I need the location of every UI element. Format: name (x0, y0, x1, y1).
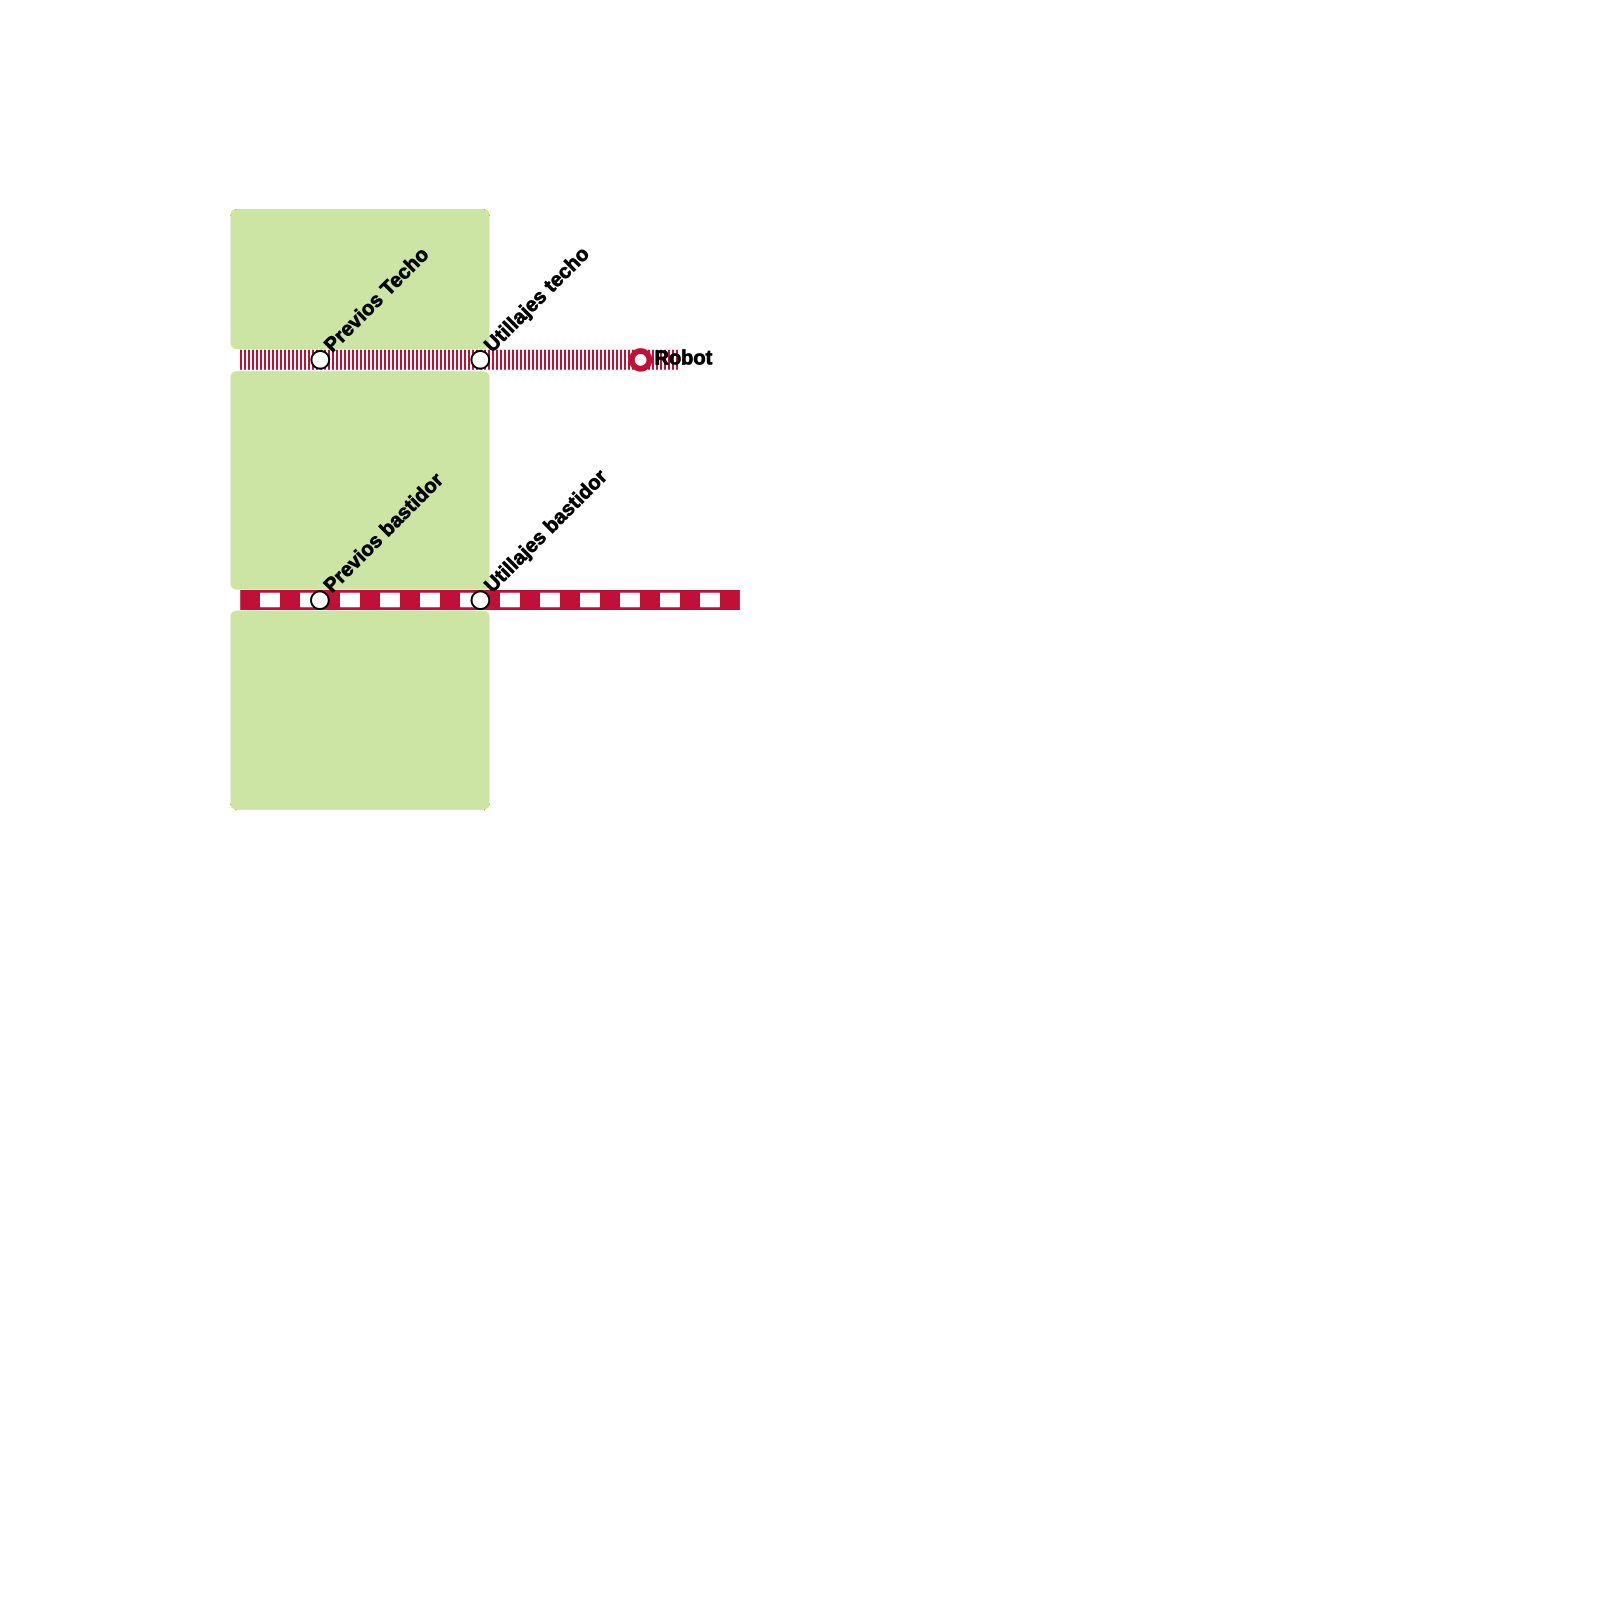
brown corner speck rect1 TR a (484, 209, 485, 210)
line techo (striped red line) (240, 350, 680, 370)
line bastidor (red base) (240, 590, 740, 610)
brown corner speck rect3 BL a (230, 804, 231, 805)
yellow corner dot rect3 TL (232, 612, 234, 614)
terminus ring Robot (632, 351, 650, 369)
yellow corner dot rect1 BL (232, 346, 234, 348)
yellow corner dot rect3 TR (487, 612, 489, 614)
yellow corner dot rect3 BL (232, 806, 234, 808)
line bastidor white dashes (260, 593, 740, 608)
yellow corner dot rect1 TL (232, 211, 234, 213)
yellow corner dot rect2 TR (487, 373, 489, 375)
brown corner speck rect1 TL b (235, 209, 236, 210)
brown corner speck rect3 BR a (484, 809, 485, 810)
station Previos bastidor (311, 591, 329, 609)
zone block 2 (middle area) (231, 371, 490, 589)
yellow corner dot rect2 BR (487, 586, 489, 588)
brown corner speck rect1 TL a (230, 215, 231, 216)
station Utillajes bastidor (472, 591, 490, 609)
station Previos Techo (311, 351, 329, 369)
yellow corner dot rect2 BL (232, 586, 234, 588)
yellow corner dot rect3 BR (487, 806, 489, 808)
brown corner speck rect3 BL b (235, 809, 236, 810)
brown corner speck rect1 TR b (489, 215, 490, 216)
yellow corner dot rect1 BR (487, 346, 489, 348)
zone block 1 (Previos Techo area) (231, 209, 490, 349)
brown corner speck rect3 BR b (489, 804, 490, 805)
zone block 3 (bottom area) (231, 611, 490, 810)
svg-text:Robot: Robot (655, 348, 713, 370)
station Utillajes techo (471, 351, 489, 369)
yellow corner dot rect1 TR (487, 211, 489, 213)
yellow corner dot rect2 TL (232, 373, 234, 375)
